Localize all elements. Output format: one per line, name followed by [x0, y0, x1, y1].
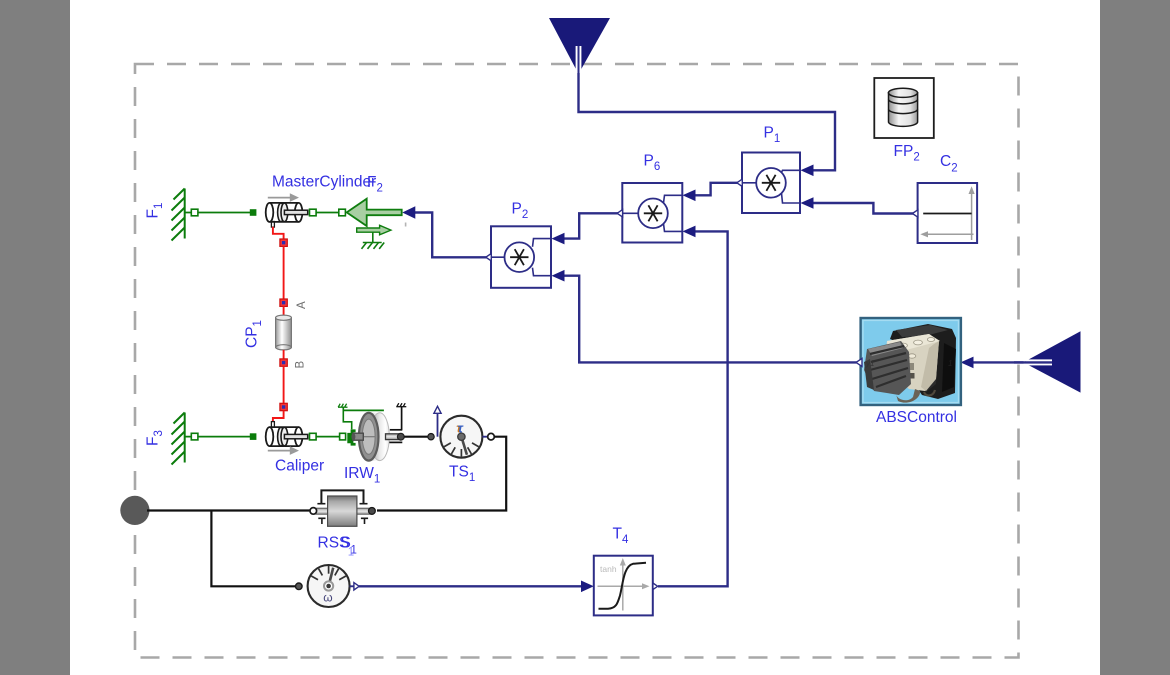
product block P2: [486, 226, 551, 287]
arrowhead into P2 bottom input: [552, 270, 565, 282]
hydraulic connector square 3 (port B): [280, 359, 287, 366]
product block P6: [617, 183, 682, 243]
hydraulic connector square 1: [280, 239, 287, 246]
table block FP2: [874, 78, 934, 138]
svg-text:1: 1: [351, 545, 357, 557]
arrowhead into P1 bottom input: [801, 197, 814, 209]
speed sensor output open triangle: [354, 583, 359, 590]
wire speed sensor output to T4 input: [359, 585, 582, 587]
svg-text:y1: y1: [865, 359, 874, 368]
wire MasterCylinder to F2: [316, 212, 339, 214]
bearing housing lines: [390, 429, 403, 431]
hydraulic line MasterCylinder to CP1: [273, 227, 284, 240]
arrowhead into P6 bottom input: [683, 226, 696, 238]
speed sensor blue stub: [350, 585, 354, 587]
wire C2 to P1 bottom input: [813, 203, 913, 214]
svg-text:B: B: [295, 361, 307, 369]
bearing support hatching: [396, 403, 406, 407]
svg-text:ABSControl: ABSControl: [876, 409, 957, 426]
MasterCylinder icon: [266, 193, 308, 227]
arrowhead into P6 top input: [683, 190, 696, 202]
node open square Caliper right: [310, 433, 317, 440]
wire P6 output to P2 top input: [564, 213, 618, 238]
wheel right shaft: [386, 434, 399, 440]
wire Caliper to IRW1 flange: [316, 436, 340, 438]
hydraulic line: [283, 246, 285, 299]
force actuator F2 big arrow: [347, 199, 402, 226]
arrowhead into ABSControl input: [961, 357, 974, 369]
arrowhead into P2 top input: [552, 233, 565, 245]
input triangle top (boundary input): [549, 18, 610, 74]
wire input triangle top to P1 top input: [579, 73, 836, 170]
svg-text:Caliper: Caliper: [275, 458, 324, 475]
input triangle right (boundary input): [1014, 331, 1081, 392]
force actuator F2 support ground: [362, 232, 385, 249]
ABSControl unit: [861, 318, 961, 405]
node open square IRW1 input: [340, 433, 346, 440]
wire branch to speed sensor: [211, 511, 296, 587]
IRW1 green mount bracket: [347, 429, 355, 445]
wire ABSControl output to P2 bottom input: [564, 276, 857, 363]
torque sensor TS1: [440, 416, 482, 458]
arrowhead into force F2: [402, 206, 415, 218]
arrowhead into P1 top input: [801, 165, 814, 177]
node filled square at Caliper left: [250, 433, 257, 440]
fixed wall F3: [172, 413, 185, 465]
wire TS1 to RSS1: [377, 437, 506, 511]
svg-text:ω: ω: [323, 591, 332, 605]
hydraulic line: [283, 366, 285, 404]
hydraulic line: [283, 350, 285, 360]
shaft end ball: [397, 433, 404, 440]
fixed wall F1: [172, 189, 185, 241]
node filled square at MasterCylinder left: [250, 209, 257, 216]
wire input triangle right to ABSControl input: [972, 361, 1024, 363]
svg-text:MasterCylinder: MasterCylinder: [272, 174, 376, 191]
bearing support post: [401, 407, 403, 430]
svg-text:tanh: tanh: [600, 564, 617, 574]
force actuator F2 support arrow: [357, 225, 391, 235]
ABSControl output open triangle: [856, 358, 862, 366]
right gray sidebar: [1100, 0, 1170, 675]
speed sensor gauge: [308, 565, 350, 607]
wheel IRW1: [351, 413, 389, 461]
gray boundary node circle: [120, 496, 149, 525]
wire F1 to MasterCylinder: [185, 212, 250, 214]
hydraulic connector square 2 (port A): [280, 299, 287, 306]
node open square F3: [191, 433, 198, 440]
left gray sidebar: [0, 0, 70, 675]
TS1 left flange: [428, 434, 434, 440]
node open square F2 input: [339, 209, 346, 216]
wire F3 to Caliper: [185, 436, 250, 438]
wire gray node to RSS1: [147, 509, 311, 511]
pipe CP1: [276, 315, 292, 350]
hydraulic line to Caliper: [273, 411, 284, 423]
TS1 blue reference arrow: [437, 412, 439, 437]
hydraulic line: [283, 306, 285, 316]
svg-text:1: 1: [948, 359, 952, 368]
IRW1 green support bar: [343, 409, 384, 411]
wire P1 output to P6 top input: [695, 183, 738, 196]
IRW1 green support frame: [343, 407, 351, 429]
Caliper icon: [266, 422, 308, 455]
hydraulic connector square 4: [280, 403, 287, 410]
shaft wire to TS1: [404, 436, 428, 438]
IRW1 green support hatching: [338, 404, 348, 408]
node open square F1: [191, 209, 198, 216]
dashed frame border: [135, 64, 1019, 658]
constant block C2: [912, 183, 977, 243]
node open square MasterCylinder right: [310, 209, 317, 216]
product block P1: [737, 153, 800, 214]
speed sensor left flange: [296, 583, 303, 590]
arrowhead into T4 input: [581, 581, 594, 593]
tick mark artifact: [405, 223, 407, 227]
svg-text:A: A: [296, 301, 308, 309]
wire T4 output to P6 bottom input: [658, 231, 728, 586]
tanh block T4: [594, 556, 658, 616]
TS1 output wire blue: [482, 436, 487, 438]
TS1 right flange open circle: [488, 433, 495, 440]
svg-text:τ: τ: [458, 421, 464, 436]
spring damper RSS1: [310, 490, 375, 526]
wire P2 output to force F2: [415, 213, 487, 258]
